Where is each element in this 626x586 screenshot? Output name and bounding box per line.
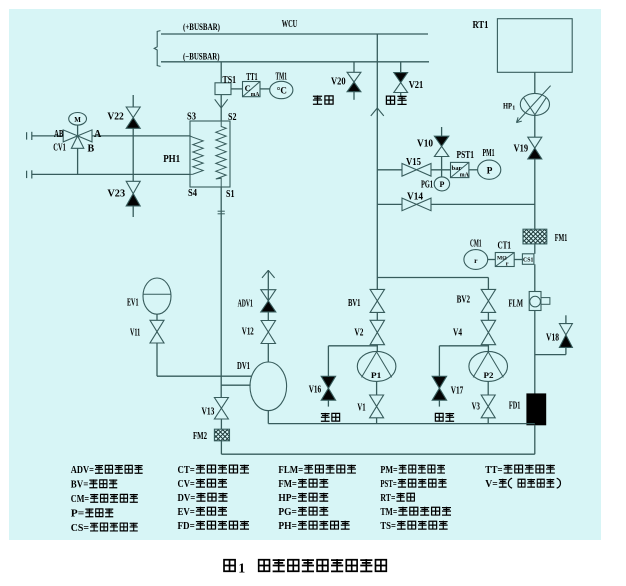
label paiqi (exhaust) left — [313, 95, 322, 104]
centrifugal pump P1 — [357, 351, 396, 381]
wire FM2 to return header — [220, 441, 222, 454]
svg-text:FLM=: FLM= — [278, 465, 303, 476]
branch wire to V16 — [328, 345, 377, 347]
svg-text:FD=: FD= — [178, 521, 195, 532]
svg-text:S2: S2 — [228, 112, 237, 123]
-busbar line — [161, 61, 429, 63]
svg-text:(−BUSBAR): (−BUSBAR) — [183, 52, 220, 63]
svg-text:CM=: CM= — [71, 494, 89, 505]
svg-text:ADV=: ADV= — [71, 465, 94, 476]
wire V14 to right column — [431, 203, 535, 205]
wire V11 down — [156, 343, 158, 376]
svg-text:1: 1 — [512, 105, 515, 111]
svg-text:CV=: CV= — [178, 479, 195, 490]
V18 top stub — [565, 315, 567, 323]
svg-text:S4: S4 — [188, 188, 197, 199]
wire CT1 to CS1 — [514, 259, 522, 261]
wire BV1 to V2 — [376, 312, 378, 320]
V21 stem — [400, 62, 402, 73]
wire FLM down to FD1 — [534, 311, 536, 394]
svg-text:PG1: PG1 — [421, 180, 433, 191]
svg-text:S3: S3 — [187, 111, 196, 122]
svg-text:TM1: TM1 — [276, 71, 288, 82]
wire ADV1 to V12 — [267, 312, 269, 321]
svg-text:CS=: CS= — [71, 523, 89, 534]
wire DV1 to V13 — [221, 384, 250, 386]
valve V10 (normally closed vent) — [434, 136, 448, 146]
label paishui (drain) left — [321, 413, 330, 422]
svg-text:TM=: TM= — [380, 507, 397, 518]
svg-text:V23: V23 — [107, 188, 125, 199]
svg-text:CM1: CM1 — [470, 239, 482, 250]
top pipe end caps — [26, 132, 28, 139]
branch wire to V17 — [439, 345, 488, 347]
V20 stem — [353, 62, 355, 73]
V10 top stub — [441, 127, 443, 136]
svg-text:V13: V13 — [202, 406, 215, 417]
manifold wire — [377, 277, 488, 279]
svg-text:TT1: TT1 — [246, 72, 258, 83]
wire HP1 to V19 — [534, 115, 536, 137]
svg-text:DV=: DV= — [178, 493, 196, 504]
wire FM1 to CS1 — [534, 244, 536, 254]
V21 bottom stub — [400, 93, 402, 97]
valve V13 — [214, 398, 228, 409]
wire S1 down through DV1 junction to V13 — [220, 187, 222, 398]
conductivity sensor CS1 — [522, 254, 534, 264]
svg-text:V2: V2 — [354, 327, 363, 338]
centrifugal pump P2 — [469, 351, 508, 381]
valve V18 (normally closed) — [559, 335, 572, 348]
bottom pipe to PH1 — [32, 173, 190, 175]
svg-text:V14: V14 — [407, 191, 423, 202]
busbar brace — [154, 31, 160, 67]
svg-text:V1: V1 — [357, 402, 365, 413]
wire busbar to heat exchanger S2 — [220, 62, 222, 121]
svg-text:ADV1: ADV1 — [238, 298, 253, 309]
svg-text:BV2: BV2 — [457, 294, 471, 305]
svg-text:RT1: RT1 — [473, 20, 489, 31]
valve V12 — [261, 321, 275, 333]
svg-text:B: B — [88, 144, 95, 155]
wire BV2 to V4 — [487, 312, 489, 320]
wire V1 to drain header — [376, 418, 378, 424]
svg-text:°C: °C — [277, 86, 287, 96]
svg-text:P: P — [487, 167, 493, 177]
wire V4 to P2 — [487, 345, 489, 352]
wire down to V16 — [327, 346, 329, 377]
svg-text:BV1: BV1 — [348, 298, 361, 309]
V20 bottom stub — [353, 92, 355, 100]
wire FD1 to bottom return — [534, 425, 536, 454]
ADV1 vent stem — [267, 270, 269, 301]
svg-text:HP=: HP= — [278, 493, 297, 504]
svg-text:V4: V4 — [453, 327, 462, 338]
svg-text:P2: P2 — [484, 370, 494, 380]
svg-text:PST1: PST1 — [457, 150, 475, 161]
svg-text:P1: P1 — [371, 370, 381, 380]
wire down to V17 — [438, 346, 440, 377]
svg-text:mA: mA — [251, 91, 260, 98]
svg-text:PH=: PH= — [278, 521, 297, 532]
svg-text:TS1: TS1 — [223, 75, 237, 86]
wire V19 down to FM1 — [534, 159, 536, 229]
wire V10 to PG1 — [441, 157, 443, 177]
svg-text:V=: V= — [485, 479, 498, 490]
svg-text:FM1: FM1 — [555, 233, 568, 244]
svg-text:PG=: PG= — [278, 507, 297, 518]
svg-text:DV1: DV1 — [237, 361, 250, 372]
wire CV1 port B to bottom pipe — [77, 148, 79, 174]
V16 bottom stub — [327, 400, 329, 406]
valve V14 — [402, 198, 417, 211]
upper drain header — [268, 423, 535, 425]
wire V13 to FM2 — [220, 419, 222, 429]
valve V2 — [370, 320, 384, 332]
wire DV1 bottom to drain header — [267, 411, 269, 424]
V23 bottom stem — [132, 206, 134, 217]
transducer TT1 — [243, 82, 261, 97]
svg-text:P: P — [439, 180, 444, 189]
wire V12 to DV1 — [267, 344, 269, 363]
check valve BV2 — [481, 289, 495, 301]
check valve BV1 — [370, 289, 384, 301]
svg-text:HP: HP — [503, 101, 512, 110]
meter TM1 — [270, 81, 293, 98]
conductivity meter CM1 — [464, 250, 488, 270]
svg-text:V10: V10 — [417, 138, 433, 149]
svg-text:FM2: FM2 — [193, 431, 207, 442]
wire TS1 to TT1 — [231, 88, 243, 90]
expansion bottle EV1 — [143, 278, 171, 314]
bottom pipe end caps — [26, 171, 28, 178]
degassing tank DV1 — [250, 362, 287, 411]
svg-text:EV=: EV= — [178, 507, 195, 518]
valve V1 — [370, 395, 384, 406]
svg-text:AB: AB — [54, 129, 64, 140]
drain valve V16 — [321, 376, 335, 388]
wire V2 to P1 — [376, 345, 378, 352]
svg-text:V22: V22 — [107, 111, 123, 122]
HP1 internal V — [524, 98, 547, 115]
svg-text:V18: V18 — [546, 332, 559, 343]
valve V4 — [481, 320, 495, 332]
sensor TS1 — [215, 83, 231, 95]
control valve CV1 (3-way) — [63, 130, 77, 142]
valve V20 — [347, 72, 361, 82]
svg-text:P=: P= — [71, 509, 85, 520]
wire P1 to V1 — [376, 381, 378, 395]
svg-text:V15: V15 — [406, 157, 421, 168]
wire to V23 — [132, 174, 134, 181]
filter FM2 — [214, 429, 229, 441]
auto air release valve ADV1 — [261, 290, 276, 301]
svg-text:PM1: PM1 — [483, 148, 495, 159]
svg-text:1: 1 — [238, 562, 245, 577]
svg-text:FD1: FD1 — [509, 400, 521, 411]
valve V23 — [126, 181, 140, 193]
svg-text:V12: V12 — [242, 326, 254, 337]
valve V21 — [394, 73, 408, 83]
svg-text:PM=: PM= — [380, 465, 397, 476]
svg-text:BV=: BV= — [71, 480, 89, 491]
wire manifold to BV2 — [487, 278, 489, 290]
svg-text:V3: V3 — [472, 401, 480, 412]
wire V22 to bottom pipe — [132, 128, 134, 174]
lower return header — [221, 453, 534, 455]
valve V11 — [150, 320, 164, 331]
flow arrow up on riser — [371, 108, 384, 116]
wire riser to V15 — [377, 169, 402, 171]
wire V3 to drain header — [487, 418, 489, 424]
wire TT1 to TM1 — [260, 88, 270, 90]
wire CS1 to FLM — [534, 264, 536, 291]
motor M of CV1 — [69, 113, 87, 126]
wire PST1 to PM1 — [469, 169, 478, 171]
arrow down into S2 — [215, 99, 228, 108]
svg-text:M: M — [74, 116, 81, 124]
svg-text:FM=: FM= — [278, 479, 297, 490]
conductivity transmitter CT1 — [495, 253, 514, 267]
svg-text:r: r — [506, 261, 509, 267]
svg-text:RT=: RT= — [380, 493, 395, 504]
svg-text:TT=: TT= — [485, 465, 502, 476]
label paiqi (exhaust) right — [386, 96, 394, 104]
svg-text:CT1: CT1 — [498, 240, 512, 251]
ion exchanger FD1 — [527, 394, 546, 425]
V22 top stem — [132, 95, 134, 107]
svg-text:A: A — [94, 129, 102, 140]
motor stem — [77, 125, 79, 135]
svg-text:S1: S1 — [226, 189, 235, 200]
svg-text:V17: V17 — [451, 385, 464, 396]
flow meter FLM — [529, 292, 541, 311]
drain valve V17 — [432, 376, 446, 388]
valve V3 — [481, 395, 495, 406]
heat exchanger PH1 box — [190, 121, 230, 187]
main riser wire — [376, 34, 378, 289]
svg-text:CV1: CV1 — [53, 142, 66, 153]
svg-text:WCU: WCU — [282, 19, 298, 30]
hose union tick on S1 line — [218, 210, 225, 212]
wire EV1 to V11 — [156, 314, 158, 320]
wire V15 to PST1 — [431, 169, 451, 171]
wire riser to V14 — [377, 203, 402, 205]
pressure transmitter PST1 — [451, 162, 469, 177]
V18 lower stem — [565, 347, 567, 354]
valve V22 — [126, 107, 140, 118]
wire RT1 to HP1 — [534, 72, 536, 93]
+busbar line — [161, 33, 428, 35]
svg-text:CT=: CT= — [178, 465, 195, 476]
svg-text:PH1: PH1 — [163, 154, 180, 165]
label paishui (drain) right — [435, 413, 443, 421]
svg-text:PST=: PST= — [380, 479, 396, 490]
hand pump HP1 — [520, 93, 549, 115]
svg-text:(+BUSBAR): (+BUSBAR) — [183, 22, 220, 33]
EV1 level line — [143, 293, 171, 295]
PH1 left coil — [190, 136, 203, 174]
svg-text:CS1: CS1 — [523, 258, 533, 264]
pressure gauge PG1 — [434, 177, 449, 191]
svg-text:EV1: EV1 — [127, 297, 139, 308]
HP1 stroke arrow — [516, 86, 550, 123]
wire to V18 — [535, 354, 566, 356]
valve V15 — [402, 164, 417, 177]
svg-text:mA: mA — [460, 172, 469, 179]
svg-text:V21: V21 — [409, 80, 424, 91]
svg-text:FLM: FLM — [509, 299, 524, 310]
filter FM1 — [523, 229, 547, 244]
svg-text:V11: V11 — [130, 327, 140, 338]
svg-text:V20: V20 — [331, 76, 346, 87]
svg-text:TS=: TS= — [380, 521, 396, 532]
reserve tank RT1 — [497, 19, 572, 73]
vent arrow up — [262, 270, 275, 278]
svg-text:V16: V16 — [309, 384, 321, 395]
top pipe to PH1 — [92, 135, 190, 137]
pressure meter PM1 — [478, 160, 501, 179]
svg-text:V19: V19 — [514, 143, 529, 154]
wire V11 to DV1 — [157, 375, 252, 377]
wire CM1 to CT1 — [488, 259, 496, 261]
top pipe left segment — [32, 135, 63, 137]
valve V19 — [528, 137, 542, 148]
V17 bottom stub — [438, 400, 440, 406]
PH1 right coil — [216, 121, 226, 187]
wire P2 to V3 — [487, 381, 489, 395]
caption: Fig.1 water cooling process flow diagram — [224, 560, 235, 571]
